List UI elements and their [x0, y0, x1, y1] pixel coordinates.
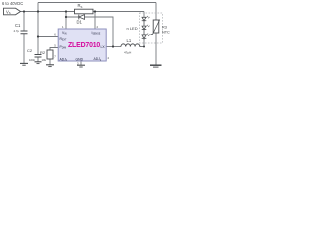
resistor RS: [75, 3, 94, 14]
node: junction dots: [23, 10, 145, 47]
svg-text:ZLED7010: ZLED7010: [68, 42, 100, 49]
svg-text:n LED: n LED: [127, 26, 138, 31]
capacitor C2: [27, 48, 42, 62]
wire x38 vertical: [37, 3, 39, 55]
wire L1 to LED bottom: [140, 38, 145, 46]
LED D3: [142, 25, 150, 35]
LED module dashed box: [140, 13, 163, 43]
inductor L1: [121, 38, 140, 55]
wire NTC to ground: [155, 33, 157, 65]
wire top rail VIN: [38, 2, 156, 4]
LED D4: [142, 34, 150, 40]
node REXT tap: [37, 35, 39, 37]
svg-text:10k: 10k: [42, 58, 47, 62]
background: [0, 0, 174, 71]
node D1 anode tap: [65, 16, 67, 18]
ground (IC GND): [77, 65, 85, 67]
wire VS to node: [21, 11, 145, 13]
svg-text:D1: D1: [77, 19, 83, 24]
wire ISENSE vertical: [94, 12, 96, 30]
svg-text:R2: R2: [40, 50, 46, 55]
wire GND pin stem: [80, 61, 82, 65]
wire PDIM pin: [50, 48, 58, 51]
thermistor R3 NTC: [151, 20, 171, 35]
wire LED top drop: [143, 12, 145, 18]
svg-text:47µH: 47µH: [124, 51, 131, 55]
input flag Vs: [4, 8, 21, 15]
node VIN pin tap: [65, 10, 67, 12]
LED D2: [142, 16, 150, 26]
wire C2 lower stem: [37, 57, 39, 62]
node top-rail tap: [37, 10, 39, 12]
svg-text:4.7µ: 4.7µ: [14, 29, 20, 33]
ground (NTC): [150, 65, 162, 67]
ground (C1): [20, 63, 28, 65]
wire NTC drop: [155, 3, 157, 21]
wire C1 stem: [23, 12, 25, 32]
svg-text:C2: C2: [27, 48, 33, 53]
svg-text:6 to 40VDC: 6 to 40VDC: [2, 1, 23, 6]
wire REXT pin: [38, 36, 58, 38]
svg-text:LX: LX: [101, 45, 106, 49]
svg-text:VS: VS: [6, 9, 11, 15]
ground (C2): [35, 62, 42, 64]
wire LX to L1: [106, 46, 121, 48]
node LED/L1 corner: [143, 46, 145, 48]
wire R2 lower stem: [49, 59, 51, 65]
svg-text:R3: R3: [162, 26, 167, 30]
ground (R2): [46, 65, 54, 67]
IC U1 ZLED7010: [54, 25, 109, 66]
resistor R2: [40, 50, 53, 62]
diode D1: [77, 15, 85, 25]
svg-text:RS: RS: [78, 3, 83, 9]
wire D1 horizontal: [66, 17, 113, 47]
svg-text:L1: L1: [127, 38, 132, 43]
node LX/D1 tap: [112, 45, 114, 47]
node ISENSE pin tap: [94, 10, 96, 12]
wire D1 row: [65, 12, 67, 30]
svg-text:NTC: NTC: [162, 30, 170, 34]
capacitor C1: [14, 23, 28, 34]
svg-text:C1: C1: [15, 23, 21, 28]
node C1 tap: [23, 10, 25, 12]
wire C1 lower stem: [23, 34, 25, 64]
